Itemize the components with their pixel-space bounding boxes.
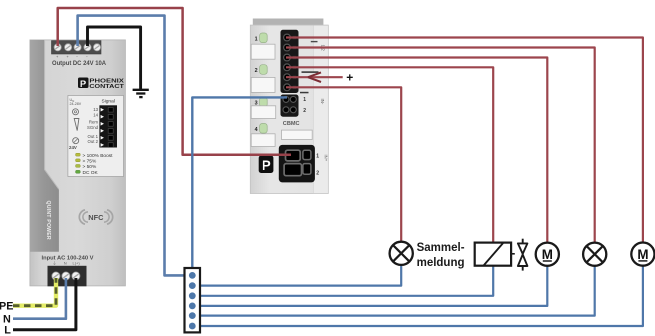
svg-text:SGnd: SGnd <box>87 125 99 130</box>
screw terminal output + (pin 2) <box>65 44 72 51</box>
screw terminal output - (pin 3) <box>74 44 81 51</box>
svg-text:> 100% Boost: > 100% Boost <box>83 153 114 159</box>
minus terminal 2a <box>283 107 289 113</box>
svg-text:DC OK: DC OK <box>83 170 99 176</box>
supply feed stub with arrow <box>286 71 353 85</box>
output terminal 4 <box>284 64 291 71</box>
svg-text:N: N <box>64 260 67 265</box>
wire return motor M2 <box>199 265 643 326</box>
svg-text:P: P <box>80 79 87 90</box>
node X1-1 <box>189 272 196 279</box>
svg-text:Input AC 100-240 V: Input AC 100-240 V <box>42 255 94 261</box>
svg-text:⏚: ⏚ <box>53 259 57 265</box>
channel 4 pushbutton <box>255 124 268 134</box>
node X1-5 <box>189 312 196 319</box>
svg-text:1: 1 <box>255 36 258 42</box>
node X1-4 <box>189 303 196 310</box>
svg-text:14: 14 <box>93 112 98 117</box>
wire N <box>13 278 66 319</box>
device label field <box>282 130 313 139</box>
indicator lamp P2 <box>583 243 606 266</box>
minus input block on U2 <box>281 95 299 117</box>
label Sammelmeldung <box>417 242 465 269</box>
node X1-3 <box>189 292 196 299</box>
svg-text:QUINT POWER: QUINT POWER <box>45 201 51 240</box>
channel 3 label field <box>251 106 276 119</box>
svg-text:Output DC 24V 10A: Output DC 24V 10A <box>52 61 107 67</box>
adjustment icons <box>73 109 79 144</box>
circuit breaker module U2 CBMC body <box>250 19 328 194</box>
power supply U1 front panel <box>68 96 124 177</box>
screw terminal N <box>62 272 70 280</box>
svg-text:Out 2: Out 2 <box>87 139 98 144</box>
svg-text:IN+: IN+ <box>323 155 328 162</box>
power supply U1 QUINT POWER body <box>30 40 126 286</box>
screw terminal output + (pin 1) <box>54 44 61 51</box>
input hole 1+ <box>286 150 301 161</box>
wire channel output to valve Y1 <box>286 67 493 242</box>
wire DC+ from U1 output to U2 supply input <box>58 8 291 155</box>
svg-text:2: 2 <box>303 108 306 114</box>
solenoid valve Y1 coil <box>475 243 515 266</box>
wire PE <box>13 278 56 306</box>
svg-text:Rem: Rem <box>89 120 98 125</box>
channel 2 label field <box>251 77 275 92</box>
wire U1 output to earth <box>88 27 141 89</box>
ground symbol <box>133 90 149 97</box>
wire return lamp P1 <box>199 264 401 286</box>
LED DC OK <box>76 170 99 176</box>
svg-text:meldung: meldung <box>417 257 465 269</box>
svg-text:1: 1 <box>316 154 319 160</box>
LED > 100% Boost <box>76 153 114 159</box>
wire channel output to motor M2 <box>286 38 643 244</box>
wire return valve Y1 <box>199 266 493 296</box>
channel 1 label field <box>251 44 275 59</box>
svg-text:24-28V: 24-28V <box>70 102 82 106</box>
svg-text:> 50%: > 50% <box>83 164 97 170</box>
svg-text:M: M <box>637 247 648 262</box>
svg-text:PE: PE <box>0 301 13 313</box>
minus terminal 1b <box>290 96 296 102</box>
svg-text:1: 1 <box>303 97 306 103</box>
svg-text:P: P <box>262 158 271 173</box>
indicator lamp P1 <box>390 242 413 265</box>
signal pin labels <box>87 107 99 144</box>
output terminal 2 <box>284 44 291 51</box>
svg-text:2: 2 <box>316 171 319 177</box>
output terminal 6 <box>284 84 291 91</box>
output terminal strip on U2 <box>281 30 299 93</box>
channel 4 label field <box>251 134 275 147</box>
svg-text:CONTACT: CONTACT <box>89 84 124 90</box>
wire U2 minus input to distribution block <box>192 97 287 275</box>
screw terminal output - (pin 4) <box>84 44 91 51</box>
input hole 2 aux <box>303 164 311 175</box>
node X1-6 <box>189 323 196 330</box>
wire return lamp P2 <box>199 265 595 316</box>
svg-text:CBMC: CBMC <box>283 121 300 127</box>
valve symbol Y1 <box>518 239 528 271</box>
supply input block on U2 <box>279 145 315 183</box>
distribution terminal block X1 <box>185 268 201 332</box>
wire L <box>13 278 76 330</box>
input hole 2+ <box>284 164 301 176</box>
minus terminal 1a <box>283 96 289 102</box>
minus terminal 2b <box>290 107 296 113</box>
channel 1 pushbutton <box>255 33 268 43</box>
LED > 75% <box>76 159 97 165</box>
svg-text:L: L <box>4 324 11 336</box>
input hole 1 aux <box>303 150 311 159</box>
svg-text:M: M <box>542 247 553 262</box>
minus block pin labels <box>300 92 325 114</box>
svg-text:Signal: Signal <box>102 99 115 105</box>
svg-text:+: + <box>346 71 353 85</box>
output terminal 1 <box>284 34 291 41</box>
output terminal 5 <box>284 74 291 81</box>
wire signal output to lamp P1 <box>286 87 401 242</box>
svg-text:Sammel-: Sammel- <box>417 242 465 254</box>
signal connector on U1 <box>99 105 117 147</box>
svg-text:4: 4 <box>255 127 258 133</box>
Phoenix Contact logo on U1 <box>78 78 125 90</box>
svg-text:IN-: IN- <box>320 99 325 105</box>
svg-text:NFC: NFC <box>88 213 104 222</box>
Phoenix Contact logo on U2 <box>259 156 274 173</box>
svg-text:24V: 24V <box>69 145 77 150</box>
wire return motor M1 <box>199 265 547 306</box>
svg-text:L(+): L(+) <box>73 260 81 265</box>
wire channel output to lamp P2 <box>286 48 595 244</box>
screw terminal output (pin 5) <box>93 44 100 51</box>
power supply U1 DC output terminal block <box>52 41 102 60</box>
svg-text:Out 1: Out 1 <box>87 134 98 139</box>
power supply U1 AC input terminal block <box>48 266 87 287</box>
screw terminal L <box>72 272 80 280</box>
screw terminal PE <box>52 272 60 280</box>
node X1-2 <box>189 282 196 289</box>
channel group mark 2 <box>311 41 318 42</box>
motor M1 <box>536 243 559 266</box>
LED > 50% <box>76 164 97 170</box>
power supply U1 side strip QUINT POWER <box>30 40 59 252</box>
output terminal 3 <box>284 54 291 61</box>
svg-text:> 75%: > 75% <box>83 159 97 165</box>
channel group mark <box>302 71 319 73</box>
wire channel output to motor M1 <box>286 58 547 244</box>
svg-text:2: 2 <box>255 68 258 74</box>
motor M2 <box>631 243 654 266</box>
channel 3 pushbutton <box>255 97 268 107</box>
wire DC- from U1 output to distribution block <box>78 16 186 276</box>
channel 2 pushbutton <box>255 65 268 75</box>
NFC logo on U1 <box>79 210 112 224</box>
supply block pin labels <box>316 154 328 177</box>
svg-text:13: 13 <box>93 107 98 112</box>
